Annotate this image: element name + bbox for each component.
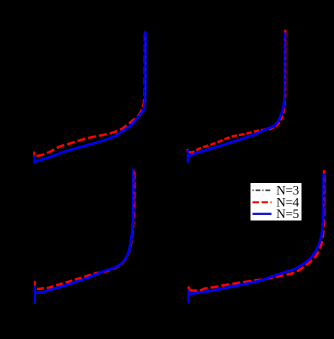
svg-text:N=5: N=5: [276, 206, 299, 221]
